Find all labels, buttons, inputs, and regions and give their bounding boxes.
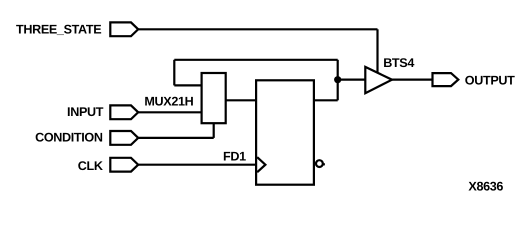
pin stub FD1 bubble xyxy=(323,163,325,165)
wire CONDITION horizontal xyxy=(138,137,214,139)
svg-text:MUX21H: MUX21H xyxy=(144,95,193,109)
wire buffer output xyxy=(392,78,433,80)
svg-text:THREE_STATE: THREE_STATE xyxy=(16,22,101,36)
pin clock marker FD1 xyxy=(257,157,265,172)
pin CONDITION xyxy=(110,131,138,145)
wire THREE_STATE enable vertical xyxy=(376,29,378,73)
pin OUTPUT xyxy=(433,73,459,86)
wire THREE_STATE horizontal xyxy=(138,28,378,30)
wire MUX output to FD1 D xyxy=(226,99,256,101)
svg-text:BTS4: BTS4 xyxy=(383,56,414,70)
flip-flop FD1 body xyxy=(256,80,314,184)
svg-text:X8636: X8636 xyxy=(468,180,503,194)
wire FD1 Q output xyxy=(314,99,338,101)
svg-text:INPUT: INPUT xyxy=(67,105,104,119)
wire CONDITION to MUX select xyxy=(213,123,215,138)
wire feedback into MUX D0 xyxy=(174,84,201,86)
wire junction to buffer input xyxy=(338,78,366,80)
mux MUX21H body xyxy=(202,73,226,123)
pin THREE_STATE xyxy=(110,22,138,36)
svg-text:CLK: CLK xyxy=(78,159,103,173)
pin bubble FD1 xyxy=(316,160,323,167)
wire vertical Q to feedback xyxy=(337,60,339,101)
svg-text:FD1: FD1 xyxy=(223,149,246,163)
wire CLK to FD1 clock xyxy=(138,164,256,166)
svg-text:CONDITION: CONDITION xyxy=(35,131,103,145)
wire feedback left vertical xyxy=(173,60,175,86)
wire INPUT to MUX D1 xyxy=(138,111,202,113)
wire feedback top horizontal xyxy=(174,59,337,61)
pin INPUT xyxy=(110,105,138,119)
svg-text:OUTPUT: OUTPUT xyxy=(465,73,515,87)
junction dot xyxy=(334,76,341,83)
buffer BTS4 xyxy=(365,67,392,93)
pin CLK xyxy=(110,158,138,172)
